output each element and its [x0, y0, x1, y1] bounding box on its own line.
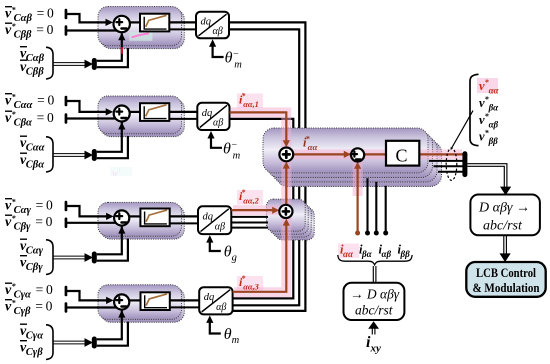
- wire hidden channel row 4 to dq block: [169, 306, 203, 308]
- svg-text:αβ: αβ: [216, 302, 226, 313]
- label i_ab: [379, 243, 392, 260]
- label reference 2 row 3: [5, 214, 53, 233]
- svg-text:dq: dq: [201, 17, 212, 28]
- wire PI saturation to dq block row 4: [169, 299, 199, 301]
- terminal stub reference 1 row 3: [65, 201, 68, 212]
- wire row3 black output 2 into summing block: [231, 222, 268, 224]
- svg-text:& Modulation: & Modulation: [473, 280, 541, 295]
- wire feedback hidden channel row 2: [97, 136, 128, 158]
- terminal dot i_alpha-beta: [374, 231, 379, 236]
- feedback junction capsule row 3: [92, 252, 97, 264]
- reference summing block (4 stacked layers): [266, 199, 314, 240]
- PI saturation icon row 3: [140, 209, 169, 227]
- PI controller block row 2 (stacked pair): [98, 96, 184, 137]
- label feedback 1 row 2: [20, 136, 45, 154]
- label i_ba: [359, 243, 373, 260]
- bundle grouping ellipse: [446, 148, 457, 180]
- wire current feedback i_beta-alpha vertical: [366, 178, 368, 231]
- terminal stub reference 1 row 2: [65, 96, 68, 107]
- wire PI saturation to dq block row 1: [169, 21, 196, 23]
- wire reference 2 into row 2: [67, 117, 118, 119]
- PI controller block row 3 (stacked pair): [98, 202, 184, 239]
- pointer line from output brace to bundle: [451, 111, 473, 150]
- summing junction row 2: [114, 106, 130, 122]
- label feedback 2 row 4: [20, 341, 43, 359]
- svg-text:dq: dq: [204, 292, 215, 303]
- wire current feedback i_alpha-beta vertical: [375, 182, 377, 231]
- svg-text:C: C: [396, 146, 408, 166]
- label feedback 2 row 2: [20, 153, 44, 171]
- wire feedback hidden channel row 3: [97, 239, 128, 261]
- feedback brace row 4: [46, 325, 53, 360]
- double-line bus D block to LCB: [504, 235, 507, 254]
- wire hidden channel row 1 to dq block: [169, 28, 200, 30]
- wire theta into dq row 2: [211, 138, 222, 148]
- terminal stub reference 2 row 3: [65, 218, 68, 229]
- faint pink annotation below row 2 block: [110, 167, 132, 178]
- wire row2 black output to row4 first feedback (B1 bus): [230, 119, 294, 299]
- main current controller block (4 stacked layers): [263, 128, 442, 187]
- terminal stub reference 1 row 4: [65, 286, 68, 297]
- wire hidden channel row 2 to dq block: [169, 118, 201, 120]
- wire theta into dq row 3: [210, 242, 221, 251]
- svg-text:D αβγ →: D αβγ →: [478, 201, 530, 216]
- wire reference 1 into summing junction row 2: [67, 101, 108, 112]
- wire i*aa3 from row4 dq up to reference summing block: [233, 225, 287, 292]
- feedback brace row 2: [46, 137, 53, 172]
- black bundle wires from stacked layers to bar: [429, 161, 463, 172]
- wire feedback into summing junction minus row 4: [97, 311, 122, 340]
- dq to alpha-beta transform row 2: [197, 103, 229, 130]
- wire PI saturation to dq block row 3: [169, 215, 198, 217]
- main summing junction plus: [279, 148, 293, 162]
- feedback bus arrow row 3: [85, 253, 94, 262]
- arrow into LCB block: [500, 253, 511, 262]
- svg-text:αβ: αβ: [213, 118, 223, 129]
- wire feedback hidden channel row 1: [97, 48, 128, 67]
- svg-text:LCB Control: LCB Control: [476, 265, 536, 280]
- wire reference 1 into summing junction row 1: [67, 14, 108, 22]
- feedback bus double line row 2: [54, 154, 85, 157]
- wire summing junction to PI saturation row 4: [129, 299, 140, 301]
- wire theta into dq row 1: [213, 46, 224, 57]
- wire C block output to bundle bar: [419, 153, 462, 155]
- wire row1 upper output to row4 third feedback (B3 bus): [229, 22, 305, 311]
- svg-text:αβ: αβ: [215, 222, 225, 233]
- PI saturation icon row 2: [140, 103, 169, 121]
- red trace segment on feedback wire row 1: [121, 47, 123, 54]
- feedback junction capsule row 4: [92, 337, 97, 349]
- dq to alpha-beta transform row 4: [199, 287, 232, 314]
- C controller block: [386, 141, 419, 166]
- double-line arrow i_xy into abc block: [372, 327, 375, 335]
- label i*aa,2: [237, 188, 263, 206]
- svg-text:αβ: αβ: [213, 26, 223, 37]
- arrowhead i_xy into abc block: [368, 321, 379, 329]
- PI controller block row 4 (stacked pair): [98, 285, 184, 322]
- label i_bb: [398, 243, 411, 260]
- svg-text:dq: dq: [202, 108, 213, 119]
- double-line bus bar to D block: [467, 164, 507, 187]
- wire theta into dq row 4: [210, 322, 221, 334]
- wire summed reference up to main summing junction: [285, 168, 287, 205]
- svg-text:→ D αβγ: → D αβγ: [350, 287, 400, 302]
- error summing junction: [351, 148, 364, 161]
- wire current feedback i_beta-beta vertical: [385, 186, 387, 231]
- D alpha-beta-gamma to abc/rst block: [470, 195, 540, 236]
- summing junction row 4: [114, 294, 129, 309]
- wire summing junction to PI saturation row 3: [129, 215, 140, 217]
- label reference 1 row 2: [5, 93, 54, 112]
- wire summing junction to PI saturation row 1: [130, 21, 140, 23]
- feedback bus arrow row 4: [85, 338, 94, 347]
- terminal dot i_beta-alpha: [365, 231, 370, 236]
- PI saturation icon row 1: [140, 14, 169, 32]
- label i_aa: [338, 243, 359, 260]
- arrow into D block: [500, 187, 511, 196]
- svg-text:abc/rst: abc/rst: [355, 303, 394, 318]
- feedback brace row 3: [46, 240, 53, 275]
- label reference 1 row 4: [5, 282, 53, 301]
- feedback bus double line row 3: [54, 256, 85, 259]
- terminal dot i_beta-beta: [383, 231, 388, 236]
- bundle terminal bar: [462, 151, 467, 177]
- wire feedback into summing junction minus row 3: [97, 227, 122, 255]
- under-brace of current labels: [338, 255, 412, 265]
- label feedback 2 row 1: [20, 60, 44, 78]
- wire summing junction to PI saturation row 2: [130, 111, 140, 113]
- feedback bus arrow row 1: [85, 60, 94, 69]
- terminal dot i_alpha-alpha: [355, 231, 360, 236]
- dq to alpha-beta transform row 3: [198, 206, 231, 234]
- wire reference 1 into summing junction row 4: [67, 291, 108, 300]
- wire row1 lower output to row4 second feedback (B2 bus): [229, 29, 299, 305]
- feedback brace row 1: [46, 47, 53, 79]
- wire feedback hidden channel row 4: [97, 322, 128, 346]
- wire reference 2 into row 1: [67, 29, 118, 31]
- svg-text:abc/rst: abc/rst: [483, 219, 523, 234]
- wire hidden channel row 3 to dq block: [169, 222, 202, 224]
- feedback junction capsule row 1: [92, 58, 97, 70]
- wire current feedback i_alpha-alpha vertical: [357, 168, 359, 231]
- dq to alpha-beta transform row 1: [196, 12, 229, 39]
- wire i*aa2 from row3 dq to reference summing block: [231, 209, 273, 211]
- feedback bus arrow row 2: [85, 151, 94, 160]
- double-line bus brace to abc block: [373, 266, 376, 283]
- terminal stub reference 2 row 1: [65, 25, 68, 36]
- label reference 2 row 4: [5, 299, 53, 318]
- PI controller block row 1 (stacked pair): [98, 7, 184, 49]
- wire reference 2 into row 4: [67, 306, 118, 308]
- label reference 1 row 1: [5, 6, 54, 25]
- svg-text:dq: dq: [203, 211, 214, 222]
- wire feedback into summing junction minus row 1: [97, 33, 122, 61]
- wire i*aa1 from row2 dq to main summing junction: [230, 112, 287, 141]
- wire reference 1 into summing junction row 3: [67, 206, 108, 216]
- wire i*aa to error junction: [294, 153, 351, 155]
- summing junction row 3: [114, 210, 129, 225]
- label feedback 1 row 4: [20, 324, 43, 342]
- summing junction row 1: [114, 16, 130, 32]
- wire error junction to C block: [364, 153, 386, 155]
- label i*aa: [303, 135, 317, 153]
- label reference 1 row 3: [5, 198, 53, 217]
- label feedback 1 row 1: [20, 47, 45, 65]
- annotation highlight inside row 1 block: [129, 32, 152, 41]
- feedback junction capsule row 2: [92, 149, 97, 161]
- wire feedback into summing junction minus row 2: [97, 123, 122, 152]
- feedback bus double line row 4: [54, 341, 85, 344]
- feedback bus double line row 1: [54, 63, 85, 66]
- terminal stub reference 2 row 2: [65, 113, 68, 124]
- pink highlight glow of alpha-alpha channel: [231, 112, 462, 292]
- label i*aa,1: [237, 92, 263, 110]
- label reference 2 row 1: [5, 22, 54, 41]
- abc/rst to D alpha-beta-gamma block: [344, 283, 405, 320]
- label feedback 2 row 3: [20, 256, 43, 274]
- reference summing junction plus: [279, 205, 292, 218]
- wire PI saturation to dq block row 2: [169, 111, 197, 113]
- wire reference 2 into row 3: [67, 222, 118, 224]
- label i*aa,3: [237, 274, 263, 292]
- wire row3 black output 1 into summing block: [231, 216, 268, 218]
- label reference 2 row 2: [5, 110, 54, 129]
- terminal stub reference 2 row 4: [65, 302, 68, 313]
- PI saturation icon row 4: [141, 292, 170, 310]
- LCB Control and Modulation block: [466, 262, 545, 297]
- output labels brace: [470, 74, 479, 145]
- wire row3 black output 3 into summing block: [231, 227, 268, 229]
- label feedback 1 row 3: [20, 239, 44, 257]
- terminal stub reference 1 row 1: [65, 9, 68, 20]
- label v*aa (red): [477, 78, 500, 96]
